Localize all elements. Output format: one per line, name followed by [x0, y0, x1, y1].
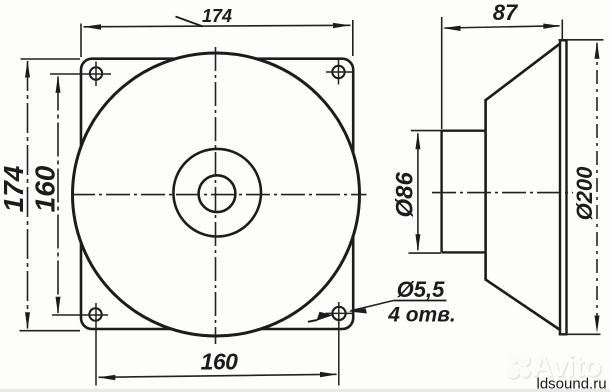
dimension 160 left	[30, 75, 61, 314]
horn lower diagonal	[486, 280, 561, 330]
watermark Avito logo circles	[505, 354, 531, 380]
magnet back edge	[440, 130, 442, 253]
svg-text:ldsound.ru: ldsound.ru	[537, 375, 607, 392]
svg-text:174: 174	[202, 6, 232, 26]
flange plate	[81, 59, 353, 329]
dimension 160 bottom	[98, 349, 338, 381]
magnet bottom edge	[442, 251, 486, 253]
dimension 174 top	[81, 6, 353, 57]
horn front face	[484, 99, 487, 281]
svg-text:160: 160	[201, 349, 239, 375]
side view center line	[432, 192, 573, 194]
dimension 87	[442, 0, 563, 129]
dimension D86	[392, 131, 442, 254]
svg-text:Ø5,5: Ø5,5	[397, 277, 445, 302]
hole top-right	[326, 60, 352, 85]
horn upper diagonal	[486, 44, 560, 100]
diffuser circle D200	[73, 53, 360, 336]
hole bottom-left	[52, 303, 108, 386]
svg-text:87: 87	[493, 0, 519, 25]
hole top-left	[50, 62, 111, 87]
small center circle	[199, 175, 236, 212]
svg-text:160: 160	[30, 165, 61, 212]
label D5,5 4 holes	[308, 277, 456, 327]
svg-text:174: 174	[0, 165, 29, 212]
hole bottom-right	[326, 302, 354, 386]
magnet top edge	[442, 129, 486, 131]
horizontal center line	[71, 194, 367, 196]
dimension D200	[559, 40, 604, 335]
middle circle	[173, 149, 261, 237]
vertical center line	[215, 47, 217, 344]
svg-text:Ø86: Ø86	[392, 171, 419, 217]
bottom gray strip	[0, 389, 610, 392]
mouth rim	[559, 40, 568, 334]
svg-text:4 отв.: 4 отв.	[387, 304, 456, 327]
dimension 174 left	[0, 59, 80, 331]
watermark Avito text	[532, 350, 603, 385]
svg-text:Ø200: Ø200	[572, 166, 597, 221]
